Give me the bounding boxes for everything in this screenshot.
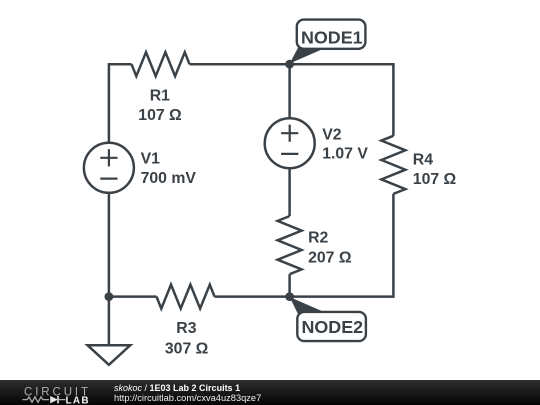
resistor R4 [381,136,405,194]
wire bottom middle segment [215,295,290,298]
svg-text:R2: R2 [308,230,328,247]
wire middle rail upper [288,64,291,118]
svg-text:LAB: LAB [66,395,90,405]
logo resistor squiggle [23,397,50,402]
junction dot bottom-left [105,292,114,301]
svg-text:NODE2: NODE2 [301,317,363,337]
svg-text:NODE1: NODE1 [301,28,363,48]
node NODE2 callout wedge [290,297,328,316]
ground [88,345,131,365]
junction dot NODE2 [285,292,294,301]
svg-text:R1: R1 [150,88,170,105]
svg-text:700 mV: 700 mV [141,170,197,187]
node NODE1 callout box [297,20,366,49]
svg-text:V2: V2 [322,126,342,143]
svg-text:R3: R3 [176,320,196,337]
junction dot NODE1 [285,60,294,69]
wire middle rail lower [288,274,291,296]
svg-text:207 Ω: 207 Ω [308,250,352,267]
V1 minus sign [100,178,117,180]
svg-text:107 Ω: 107 Ω [413,171,457,188]
voltage source V1 [84,143,134,193]
wire middle rail mid [288,168,291,216]
wire top-left corner [109,64,132,143]
V1 plus sign [100,157,117,159]
footer bar [0,380,540,405]
wire left rail lower [108,193,111,297]
wire right rail to bottom-right corner [290,194,394,297]
wire top rail to top-right corner [190,64,394,136]
svg-text:107 Ω: 107 Ω [138,107,182,124]
svg-text:307 Ω: 307 Ω [165,341,209,358]
svg-text:skokoc / 1E03 Lab 2 Circuits 1: skokoc / 1E03 Lab 2 Circuits 1 [114,383,240,393]
logo diode [50,396,58,403]
svg-text:http://circuitlab.com/cxva4uz8: http://circuitlab.com/cxva4uz83qze7 [114,393,261,403]
resistor R3 [157,285,215,309]
node NODE2 callout box [297,312,366,341]
resistor R1 [132,52,190,76]
svg-text:V1: V1 [141,151,161,168]
svg-text:R4: R4 [413,152,433,169]
node NODE1 callout wedge [290,46,324,64]
V2 plus sign [281,132,298,134]
wire bottom-left segment [109,295,157,298]
wire to ground [108,297,111,346]
voltage source V2 [265,118,315,168]
V2 minus sign [281,153,298,155]
svg-text:1.07 V: 1.07 V [322,146,368,163]
resistor R2 [278,216,302,274]
